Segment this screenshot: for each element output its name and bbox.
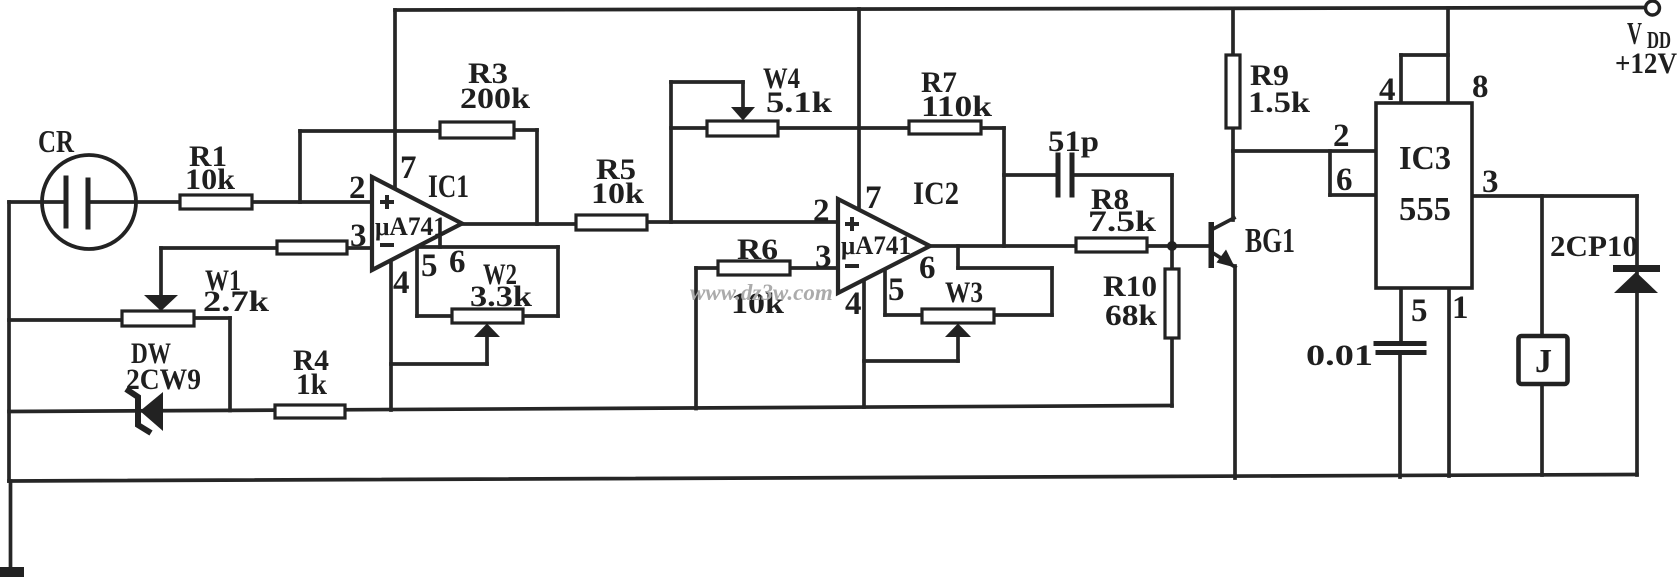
svg-text:www.dz3w.com: www.dz3w.com	[690, 280, 833, 305]
svg-text:V: V	[1627, 15, 1642, 51]
svg-text:μA741: μA741	[841, 231, 911, 260]
svg-text:2CP10: 2CP10	[1550, 230, 1638, 263]
svg-text:6: 6	[449, 244, 466, 280]
svg-text:IC2: IC2	[913, 176, 959, 212]
svg-text:2: 2	[1333, 118, 1350, 154]
svg-text:4: 4	[845, 286, 862, 322]
svg-text:110k: 110k	[921, 90, 992, 123]
svg-text:BG1: BG1	[1245, 221, 1295, 260]
svg-text:3: 3	[1482, 164, 1499, 200]
svg-text:5.1k: 5.1k	[766, 86, 832, 119]
svg-text:5: 5	[1411, 293, 1428, 329]
svg-text:6: 6	[919, 250, 936, 286]
svg-text:7.5k: 7.5k	[1088, 205, 1156, 238]
svg-text:3: 3	[350, 218, 367, 254]
svg-text:10k: 10k	[591, 177, 644, 210]
svg-text:1: 1	[1452, 290, 1469, 326]
svg-text:7: 7	[400, 150, 417, 186]
svg-text:2: 2	[813, 193, 830, 229]
svg-text:8: 8	[1472, 69, 1489, 105]
svg-text:5: 5	[421, 248, 438, 284]
svg-text:0.01: 0.01	[1306, 339, 1373, 372]
svg-text:2CW9: 2CW9	[126, 363, 201, 396]
svg-text:W3: W3	[945, 276, 983, 309]
svg-text:2: 2	[349, 170, 366, 206]
svg-text:2.7k: 2.7k	[203, 285, 269, 318]
svg-text:1.5k: 1.5k	[1248, 86, 1310, 119]
svg-text:4: 4	[1379, 72, 1396, 108]
svg-text:555: 555	[1399, 191, 1451, 228]
svg-text:IC3: IC3	[1399, 140, 1451, 177]
svg-text:R6: R6	[737, 233, 778, 266]
svg-text:68k: 68k	[1105, 299, 1157, 332]
svg-text:3.3k: 3.3k	[470, 280, 532, 313]
svg-text:μA741: μA741	[375, 212, 446, 241]
svg-text:10k: 10k	[185, 163, 235, 196]
svg-text:200k: 200k	[460, 82, 530, 115]
svg-text:51p: 51p	[1048, 125, 1099, 158]
svg-text:5: 5	[888, 272, 905, 308]
svg-text:6: 6	[1336, 162, 1353, 198]
svg-text:1k: 1k	[296, 368, 327, 401]
svg-text:J: J	[1535, 343, 1552, 380]
svg-text:7: 7	[865, 180, 882, 216]
svg-text:IC1: IC1	[428, 169, 469, 205]
svg-text:3: 3	[815, 239, 832, 275]
svg-text:DD: DD	[1647, 28, 1671, 54]
svg-text:CR: CR	[38, 123, 75, 159]
svg-text:4: 4	[393, 265, 410, 301]
